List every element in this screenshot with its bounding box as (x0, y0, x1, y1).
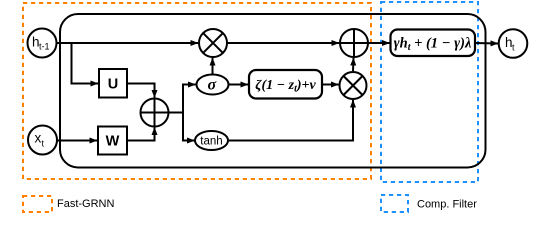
wire h_t-1 to multiplier (56, 42, 198, 44)
wire multiplier2 to adder2 (352, 58, 355, 71)
svg-text:Comp. Filter: Comp. Filter (417, 199, 477, 211)
svg-text:γht + (1 − γ)λ: γht + (1 − γ)λ (394, 36, 472, 54)
svg-text:ζ(1 − zt)+ν: ζ(1 − zt)+ν (255, 78, 316, 95)
svg-text:t-1: t-1 (39, 42, 50, 52)
wire gamma box to h_t (475, 42, 498, 45)
adder circle plus (141, 99, 169, 127)
wire adder to tanh (183, 113, 195, 141)
node h_t (499, 29, 528, 58)
wire adder2 to gamma box (368, 42, 390, 44)
legend Fast-GRNN box (23, 196, 52, 212)
box W (98, 127, 127, 155)
svg-text:x: x (35, 131, 42, 146)
gamma box (391, 30, 476, 57)
wire branch h to U (72, 43, 99, 84)
sigma ellipse (197, 75, 229, 95)
cell rounded rectangle (60, 14, 486, 168)
adder circle plus 2 (340, 29, 368, 57)
wire tanh to multiplier2 (228, 100, 354, 141)
Comp. Filter dashed boundary (381, 2, 478, 182)
legend Comp Filter box (381, 195, 408, 212)
wire multiplier to adder2 (227, 42, 339, 44)
tanh ellipse (195, 131, 228, 150)
svg-text:W: W (106, 134, 120, 150)
svg-text:tanh: tanh (200, 136, 222, 148)
svg-text:Fast-GRNN: Fast-GRNN (57, 198, 115, 210)
legend Fast-GRNN label (57, 198, 115, 210)
node h_t-1 (28, 29, 57, 58)
multiplier circle times top (199, 29, 227, 57)
wire adder to sigma (169, 85, 196, 113)
svg-text:σ: σ (207, 77, 216, 94)
zeta box (249, 70, 322, 99)
box U (99, 69, 127, 98)
wire sigma to multiplier (212, 58, 214, 75)
svg-text:U: U (108, 77, 118, 93)
wire zeta box to multiplier2 (322, 84, 339, 86)
legend Comp Filter label (417, 199, 477, 211)
wire x_t to W (57, 140, 98, 142)
multiplier circle times 2 (340, 72, 367, 99)
wire U to adder (127, 84, 155, 98)
Fast-GRNN dashed boundary (23, 3, 371, 179)
wire sigma to zeta box (229, 84, 249, 86)
wire W to adder (127, 128, 155, 141)
node x_t (28, 126, 57, 155)
